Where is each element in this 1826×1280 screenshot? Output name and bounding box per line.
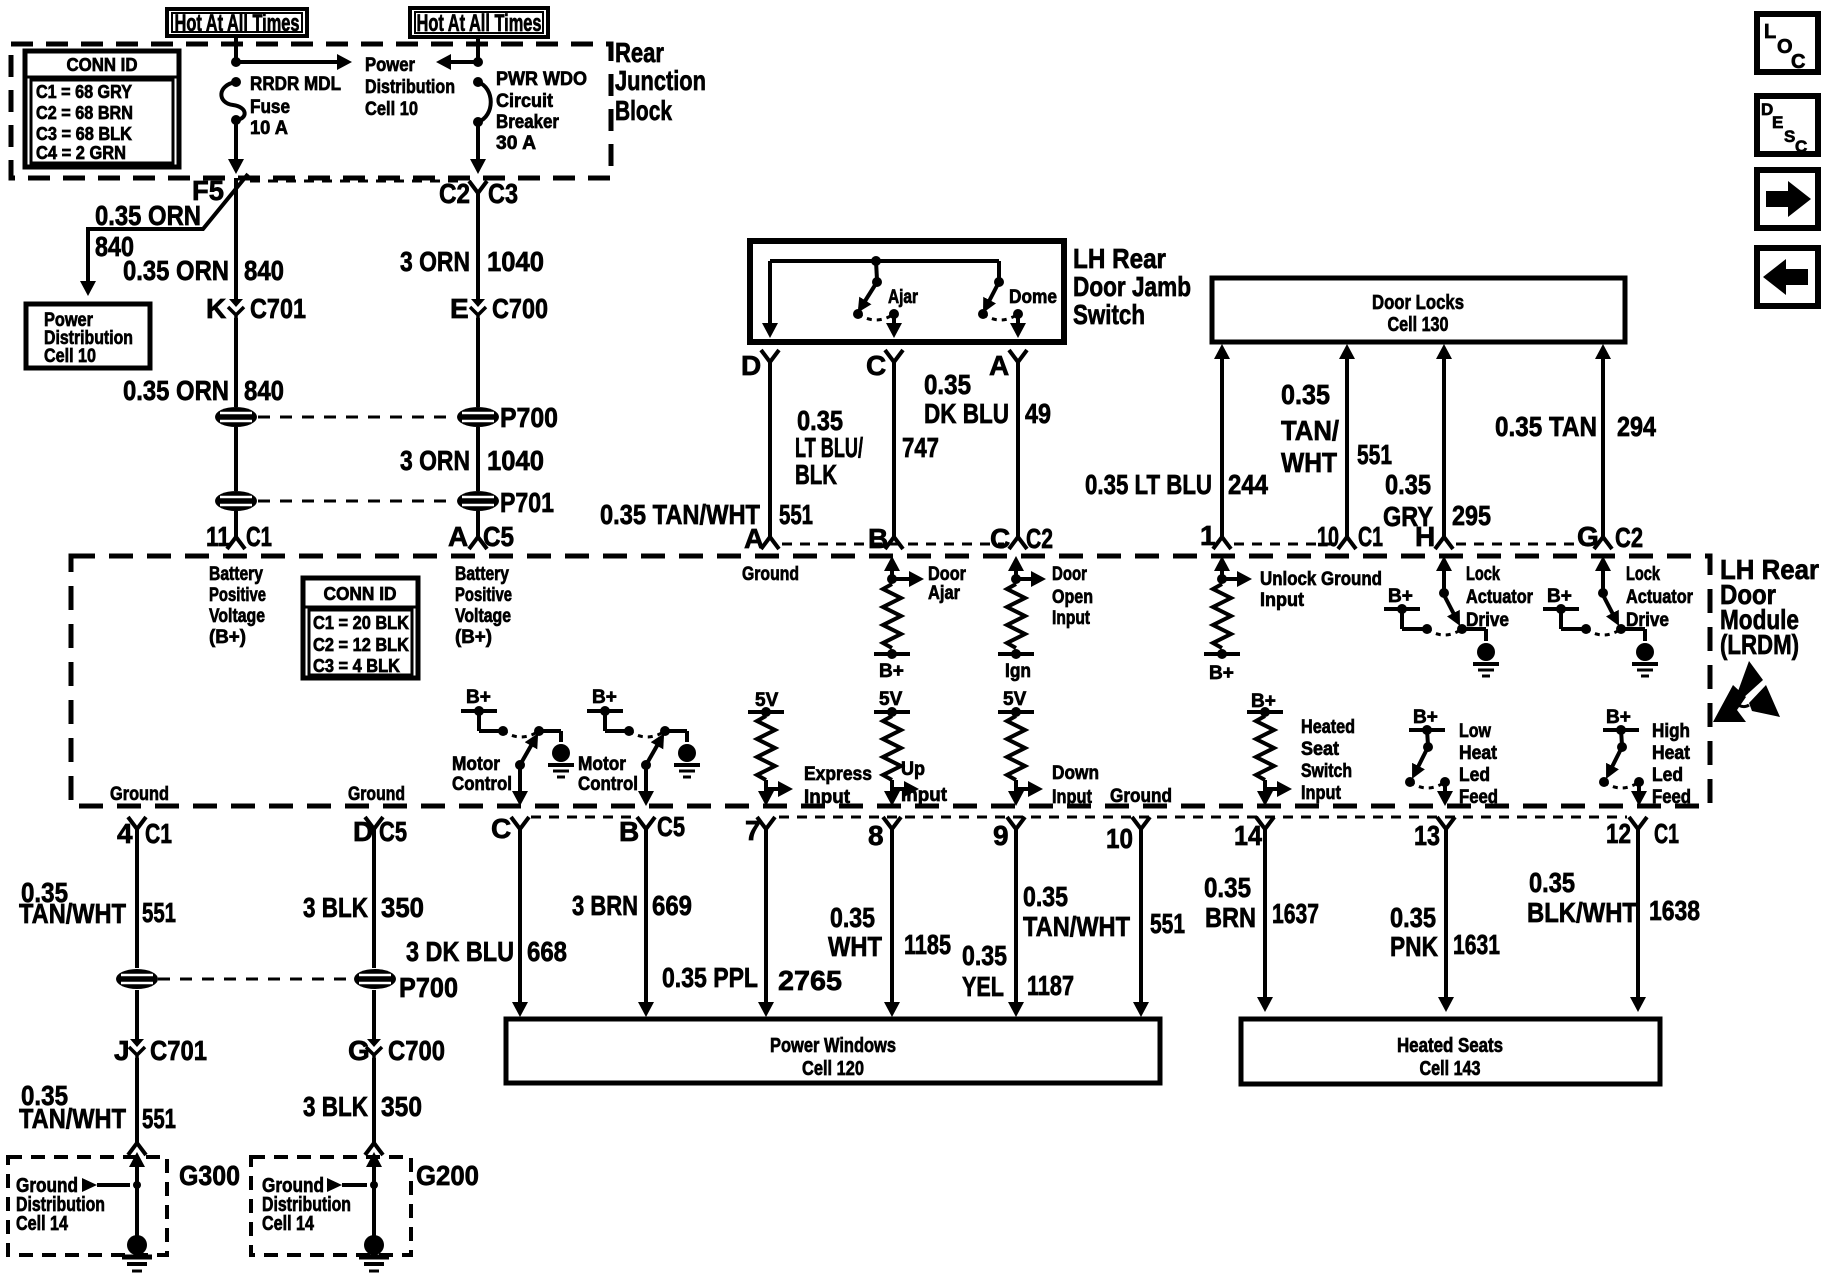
svg-text:Feed: Feed — [1459, 787, 1498, 808]
fuse RRDR MDL 10 A — [231, 77, 241, 87]
svg-text:0.35: 0.35 — [1204, 872, 1251, 903]
circuit breaker PWR WDO 30 A — [473, 77, 483, 87]
svg-text:C2 = 68 BRN: C2 = 68 BRN — [36, 103, 133, 123]
svg-text:Input: Input — [1301, 783, 1342, 804]
connector K C701 — [228, 299, 244, 320]
svg-text:Door Locks: Door Locks — [1372, 292, 1464, 314]
fork at G200 — [365, 1134, 383, 1155]
Door Locks Cell 130 box — [1212, 278, 1625, 342]
svg-text:P700: P700 — [399, 972, 458, 1003]
svg-text:WHT: WHT — [1281, 447, 1337, 478]
CONN ID table (module connectors) — [303, 578, 418, 678]
pin G C2 fork at module — [1594, 528, 1612, 549]
svg-text:C: C — [866, 350, 886, 381]
junction node ajar feed — [871, 256, 881, 266]
connector G C700 — [366, 1039, 382, 1060]
junction node on breaker feed — [473, 57, 483, 67]
svg-text:C3 = 4 BLK: C3 = 4 BLK — [313, 656, 400, 676]
svg-text:Fuse: Fuse — [250, 97, 290, 118]
svg-text:0.35: 0.35 — [830, 902, 875, 933]
pin C fork — [511, 817, 529, 839]
wire pin 10 to Power Windows — [1139, 839, 1143, 1004]
wire pin 13 to Heated Seats — [1444, 839, 1448, 999]
svg-text:P700: P700 — [500, 402, 558, 433]
Heated Seats Cell 143 box — [1241, 1019, 1660, 1084]
ajar switch — [876, 261, 877, 280]
jamb pin D fork — [761, 350, 779, 372]
pin A C5 fork at module — [469, 528, 487, 549]
svg-text:8: 8 — [868, 820, 884, 851]
arrow to Power Distribution Cell 10 — [236, 60, 340, 64]
pin D C5 fork — [365, 817, 383, 839]
wire from Hot At All Times to circuit breaker — [476, 37, 480, 62]
unlock ground input resistor to B+ — [1214, 556, 1230, 571]
splice P700 ground side left — [116, 969, 158, 989]
dome switch — [997, 261, 1001, 280]
wire jamb D to module pin A — [768, 372, 772, 528]
svg-text:Battery: Battery — [455, 564, 509, 585]
svg-text:0.35 ORN: 0.35 ORN — [95, 200, 201, 231]
svg-text:B+: B+ — [879, 661, 904, 682]
svg-text:B: B — [619, 816, 639, 847]
svg-text:350: 350 — [381, 1091, 422, 1122]
svg-text:E: E — [450, 293, 469, 324]
svg-text:49: 49 — [1025, 398, 1051, 429]
wire module pin G to Door Locks — [1601, 358, 1605, 528]
svg-text:Ajar: Ajar — [888, 287, 918, 308]
splice P700 on ground wire D (right) — [372, 990, 376, 1039]
svg-text:B+: B+ — [1388, 586, 1413, 607]
back navigation button — [1757, 248, 1818, 306]
wire pin 7 to Power Windows — [764, 839, 768, 1004]
svg-text:BLK/WHT: BLK/WHT — [1527, 897, 1637, 928]
dashed splice link P700 ground — [158, 978, 354, 981]
svg-text:E: E — [1772, 113, 1783, 132]
wire P700 to P701 (right) — [476, 427, 480, 491]
svg-text:CONN ID: CONN ID — [67, 55, 138, 75]
LH Rear Door Module dashed enclosure — [71, 556, 1710, 806]
svg-text:A: A — [989, 350, 1009, 381]
svg-text:244: 244 — [1228, 469, 1268, 500]
jamb pin A fork — [1009, 350, 1027, 372]
svg-text:Breaker: Breaker — [496, 112, 560, 133]
dashed splice link P700 — [258, 416, 456, 419]
ESD sensitivity symbol — [1737, 661, 1763, 699]
junction node on fuse feed — [231, 57, 241, 67]
svg-text:0.35 TAN/WHT: 0.35 TAN/WHT — [600, 499, 760, 530]
svg-text:YEL: YEL — [962, 971, 1004, 1002]
svg-text:10: 10 — [1106, 823, 1133, 854]
svg-text:3 BLK: 3 BLK — [303, 892, 368, 923]
svg-text:A: A — [744, 523, 764, 554]
wire P701 to module pin A — [476, 511, 480, 528]
svg-text:C4 = 2 GRN: C4 = 2 GRN — [36, 143, 126, 163]
svg-text:C3: C3 — [488, 178, 518, 209]
svg-text:C2 = 12 BLK: C2 = 12 BLK — [313, 635, 409, 655]
svg-text:Door: Door — [1052, 564, 1087, 585]
svg-text:PNK: PNK — [1390, 931, 1438, 962]
pin C2 C3 fork — [469, 181, 487, 203]
svg-text:Door: Door — [928, 564, 967, 585]
pin 11 C1 fork at module — [227, 528, 245, 549]
svg-text:Drive: Drive — [1466, 610, 1509, 631]
ground symbol G200 — [359, 1235, 389, 1271]
svg-text:Cell 14: Cell 14 — [16, 1213, 69, 1235]
wire P701 to module pin 11 — [234, 511, 238, 528]
svg-text:350: 350 — [381, 892, 424, 923]
svg-text:B+: B+ — [592, 687, 617, 708]
svg-text:Voltage: Voltage — [209, 606, 265, 627]
wire pin 8 to Power Windows — [890, 839, 894, 1004]
svg-text:B+: B+ — [1606, 707, 1631, 728]
wire C3 to connector C700 — [476, 203, 480, 299]
svg-text:1187: 1187 — [1027, 970, 1074, 1001]
svg-text:Heated: Heated — [1301, 717, 1355, 738]
svg-text:B+: B+ — [1547, 586, 1572, 607]
svg-text:Cell 130: Cell 130 — [1388, 314, 1449, 336]
svg-text:Heated Seats: Heated Seats — [1397, 1035, 1503, 1057]
pin B C5 fork — [637, 817, 655, 839]
svg-text:B: B — [868, 523, 888, 554]
svg-text:G: G — [348, 1035, 370, 1066]
svg-text:Input: Input — [1052, 608, 1091, 629]
svg-text:Up: Up — [901, 759, 925, 780]
wire from Hot At All Times to fuse F5 — [234, 36, 238, 62]
svg-text:1: 1 — [1200, 520, 1216, 551]
connector line F5 to C2 (dashed) — [250, 180, 464, 183]
svg-text:(B+): (B+) — [209, 627, 246, 648]
door open input resistor to Ign — [1008, 556, 1024, 571]
wire pin D to splice P700 — [372, 839, 376, 968]
svg-text:S: S — [1784, 127, 1795, 146]
wire F5 down to connector C701 — [234, 178, 238, 299]
svg-text:3 DK BLU: 3 DK BLU — [406, 936, 514, 967]
svg-text:Battery: Battery — [209, 564, 263, 585]
svg-text:G200: G200 — [416, 1160, 479, 1191]
svg-text:Voltage: Voltage — [455, 606, 511, 627]
connector dashed line pins 7-12 — [779, 816, 1627, 819]
jamb pin C fork — [885, 350, 903, 372]
Power Windows Cell 120 box — [506, 1019, 1160, 1083]
svg-text:Input: Input — [1260, 590, 1305, 611]
svg-text:P701: P701 — [500, 487, 554, 518]
svg-text:1638: 1638 — [1649, 895, 1700, 926]
svg-text:C701: C701 — [250, 293, 306, 324]
svg-text:Lock: Lock — [1466, 564, 1500, 585]
svg-text:C1 = 68 GRY: C1 = 68 GRY — [36, 82, 132, 102]
svg-text:C2: C2 — [439, 178, 470, 209]
svg-text:1040: 1040 — [487, 246, 544, 277]
wire pin 12 to Heated Seats — [1636, 839, 1640, 999]
svg-text:C: C — [491, 813, 511, 844]
svg-text:C5: C5 — [657, 811, 685, 842]
svg-text:Hot At All Times: Hot At All Times — [175, 10, 300, 37]
svg-text:14: 14 — [1234, 820, 1262, 851]
svg-text:30 A: 30 A — [496, 133, 536, 154]
pin C C2 fork at module — [1009, 528, 1027, 549]
LH Rear Door Jamb Switch box — [750, 241, 1064, 342]
ground symbol G300 — [122, 1235, 152, 1271]
svg-text:Input: Input — [901, 785, 948, 806]
svg-text:0.35: 0.35 — [962, 940, 1007, 971]
svg-text:Motor: Motor — [578, 754, 627, 775]
pin 8 fork — [883, 817, 901, 839]
svg-text:0.35: 0.35 — [1023, 881, 1068, 912]
svg-text:551: 551 — [779, 499, 813, 530]
svg-text:0.35 ORN: 0.35 ORN — [123, 375, 229, 406]
svg-text:Junction: Junction — [615, 65, 706, 96]
svg-text:551: 551 — [1357, 439, 1392, 470]
svg-text:Power: Power — [365, 55, 416, 76]
svg-text:0.35: 0.35 — [1281, 379, 1330, 410]
svg-text:295: 295 — [1452, 500, 1491, 531]
pin 1 fork at module — [1213, 528, 1231, 549]
DESC reference button — [1757, 96, 1818, 154]
svg-text:5V: 5V — [1003, 689, 1027, 710]
ground G300 dashed box — [8, 1157, 167, 1255]
svg-text:0.35: 0.35 — [1385, 469, 1431, 500]
pin 14 fork — [1256, 817, 1274, 839]
svg-text:668: 668 — [527, 936, 567, 967]
svg-text:Distribution: Distribution — [365, 77, 455, 98]
arrow to Power Distribution Cell 10 (left pointing) — [448, 60, 478, 64]
wire pin 4 to splice P700 — [135, 839, 139, 968]
svg-text:C2: C2 — [1026, 523, 1053, 554]
svg-text:(LRDM): (LRDM) — [1720, 629, 1799, 660]
wire pin C to Power Windows — [518, 839, 522, 1004]
svg-text:0.35 ORN: 0.35 ORN — [123, 255, 229, 286]
svg-text:Led: Led — [1459, 765, 1490, 786]
svg-text:Input: Input — [804, 787, 851, 808]
svg-text:Switch: Switch — [1073, 299, 1145, 330]
svg-text:Control: Control — [578, 774, 638, 795]
svg-text:RRDR MDL: RRDR MDL — [250, 74, 341, 95]
svg-text:A: A — [448, 521, 468, 552]
svg-text:669: 669 — [652, 890, 692, 921]
svg-text:Heat: Heat — [1652, 743, 1691, 764]
svg-text:BRN: BRN — [1205, 902, 1256, 933]
svg-text:3 BRN: 3 BRN — [572, 890, 638, 921]
svg-text:G: G — [1577, 521, 1599, 552]
wire jamb C to module pin B — [892, 372, 896, 528]
Hot At All Times label box 2 — [410, 8, 548, 37]
forward navigation button — [1757, 170, 1818, 228]
svg-text:Control: Control — [452, 774, 512, 795]
pin 13 fork — [1437, 817, 1455, 839]
svg-text:Motor: Motor — [452, 754, 501, 775]
svg-text:7: 7 — [745, 815, 761, 846]
svg-text:Open: Open — [1052, 587, 1093, 608]
svg-text:L: L — [1764, 21, 1776, 43]
lock actuator drive switch pin H — [1436, 556, 1452, 571]
svg-text:0.35 TAN: 0.35 TAN — [1495, 411, 1597, 442]
svg-text:C1: C1 — [145, 818, 172, 849]
wire module pin H to Door Locks — [1442, 358, 1446, 528]
svg-text:Led: Led — [1652, 765, 1683, 786]
pin 7 fork — [757, 817, 775, 839]
svg-text:WHT: WHT — [828, 931, 882, 962]
svg-text:13: 13 — [1414, 820, 1440, 851]
svg-text:1631: 1631 — [1453, 929, 1500, 960]
svg-text:Unlock Ground: Unlock Ground — [1260, 569, 1382, 590]
svg-text:B+: B+ — [1413, 707, 1438, 728]
svg-text:747: 747 — [902, 432, 939, 463]
svg-text:3 ORN: 3 ORN — [400, 246, 470, 277]
svg-text:4: 4 — [117, 818, 133, 849]
wire pin 9 to Power Windows — [1014, 839, 1018, 1004]
svg-text:C1: C1 — [1358, 521, 1383, 552]
svg-text:Down: Down — [1052, 763, 1099, 784]
svg-text:PWR WDO: PWR WDO — [496, 69, 587, 90]
LOC reference button — [1757, 14, 1818, 72]
pin 10 fork — [1132, 817, 1150, 839]
svg-text:3 BLK: 3 BLK — [303, 1091, 368, 1122]
svg-text:Cell 10: Cell 10 — [44, 346, 96, 367]
svg-text:Ground: Ground — [110, 784, 169, 805]
svg-text:B+: B+ — [466, 687, 491, 708]
svg-text:3 ORN: 3 ORN — [400, 445, 470, 476]
svg-text:Low: Low — [1459, 721, 1491, 742]
svg-text:D: D — [353, 816, 373, 847]
svg-text:C1: C1 — [246, 521, 272, 552]
splice P700 left — [215, 407, 257, 427]
splice P701 left — [215, 491, 257, 511]
svg-text:D: D — [741, 350, 761, 381]
Rear Junction Block dashed enclosure — [11, 44, 611, 178]
svg-text:Positive: Positive — [455, 585, 512, 606]
svg-text:12: 12 — [1606, 818, 1631, 849]
wire P700 to P701 (left) — [234, 427, 238, 491]
connector dashed line pins C-B — [531, 816, 635, 819]
G300 internal ground distribution — [129, 1152, 145, 1167]
splice P700 right — [457, 407, 499, 427]
G200 internal ground distribution — [366, 1152, 382, 1167]
svg-text:B+: B+ — [1209, 663, 1234, 684]
svg-text:Ground: Ground — [1110, 786, 1172, 807]
wire module pin 10 to Door Locks — [1345, 358, 1349, 528]
svg-text:CONN ID: CONN ID — [324, 584, 397, 604]
svg-text:C700: C700 — [492, 293, 548, 324]
svg-text:Circuit: Circuit — [496, 91, 554, 112]
svg-text:K: K — [206, 293, 226, 324]
pin 10 C1 fork at module — [1338, 528, 1356, 549]
svg-text:Door Jamb: Door Jamb — [1073, 271, 1191, 302]
svg-text:1040: 1040 — [487, 445, 544, 476]
svg-text:C3 = 68 BLK: C3 = 68 BLK — [36, 124, 132, 144]
svg-text:Input: Input — [1052, 787, 1093, 808]
svg-text:551: 551 — [142, 1103, 176, 1134]
CONN ID table (junction block connectors) — [25, 51, 179, 167]
splice P701 right — [457, 491, 499, 511]
svg-text:0.35: 0.35 — [1529, 867, 1575, 898]
svg-text:Ajar: Ajar — [928, 583, 961, 604]
svg-text:(B+): (B+) — [455, 627, 492, 648]
connector dashed line pins A-C2 — [782, 543, 1004, 546]
svg-text:Actuator: Actuator — [1626, 587, 1694, 608]
wire breaker output with arrow at block edge — [476, 122, 480, 160]
pin 12 C1 fork — [1629, 817, 1647, 839]
svg-text:10 A: 10 A — [250, 118, 288, 139]
wire C700 to splice P700 — [476, 318, 480, 407]
wire module pin 1 to Door Locks — [1220, 358, 1224, 528]
svg-text:0.35 LT BLU: 0.35 LT BLU — [1085, 469, 1212, 500]
svg-text:Feed: Feed — [1652, 787, 1691, 808]
svg-text:551: 551 — [142, 897, 176, 928]
svg-text:5V: 5V — [879, 689, 903, 710]
svg-text:LH Rear: LH Rear — [1073, 243, 1166, 274]
svg-text:Heat: Heat — [1459, 743, 1498, 764]
svg-text:Lock: Lock — [1626, 564, 1660, 585]
svg-text:840: 840 — [244, 375, 284, 406]
lock actuator drive switch pin G — [1595, 556, 1611, 571]
svg-text:551: 551 — [1150, 908, 1185, 939]
connector dashed line pins H-C2 — [1456, 543, 1590, 546]
svg-text:BLK: BLK — [795, 459, 837, 490]
svg-text:DK BLU: DK BLU — [924, 398, 1009, 429]
wire C701 to G300 — [135, 1058, 139, 1134]
pin B fork at module — [885, 528, 903, 549]
svg-text:C: C — [1795, 137, 1807, 156]
door ajar input resistor to B+ — [884, 556, 900, 571]
svg-text:C701: C701 — [150, 1035, 207, 1066]
svg-text:Cell 14: Cell 14 — [262, 1213, 315, 1235]
svg-text:Hot At All Times: Hot At All Times — [417, 10, 542, 37]
splice P700 ground side right — [354, 969, 396, 989]
svg-text:Drive: Drive — [1626, 610, 1669, 631]
jamb switch common wire — [770, 259, 999, 263]
wire jamb A to module pin C — [1016, 372, 1020, 528]
svg-text:C700: C700 — [388, 1035, 445, 1066]
svg-text:C2: C2 — [1615, 522, 1643, 553]
ground G200 dashed box — [251, 1157, 411, 1255]
svg-text:C5: C5 — [483, 521, 514, 552]
svg-text:Ground: Ground — [348, 784, 405, 805]
Power Distribution Cell 10 box — [26, 304, 150, 368]
svg-text:10: 10 — [1317, 521, 1339, 552]
wire pin 14 to Heated Seats — [1263, 839, 1267, 999]
svg-text:Ground: Ground — [742, 564, 799, 585]
svg-text:TAN/WHT: TAN/WHT — [19, 898, 126, 929]
svg-text:High: High — [1652, 721, 1690, 742]
pin H fork at module — [1435, 528, 1453, 549]
wire splice to connector C701 — [135, 990, 139, 1039]
svg-text:C: C — [990, 523, 1010, 554]
svg-text:2765: 2765 — [778, 965, 842, 996]
svg-text:C1 = 20 BLK: C1 = 20 BLK — [313, 613, 409, 633]
Hot At All Times label box 1 — [167, 9, 307, 36]
connector J C701 — [129, 1039, 145, 1060]
connector E C700 — [470, 299, 486, 320]
pin 9 fork — [1007, 817, 1025, 839]
wire pin B to Power Windows — [644, 839, 648, 1004]
fork at G300 — [128, 1134, 146, 1155]
svg-text:9: 9 — [993, 820, 1009, 851]
svg-text:294: 294 — [1617, 411, 1656, 442]
svg-text:Power Windows: Power Windows — [770, 1035, 896, 1057]
svg-text:0.35: 0.35 — [924, 369, 971, 400]
svg-text:Dome: Dome — [1009, 287, 1057, 308]
dashed splice link P701 — [258, 500, 456, 503]
svg-text:C: C — [1791, 51, 1805, 73]
svg-text:TAN/: TAN/ — [1281, 415, 1339, 446]
svg-text:Positive: Positive — [209, 585, 266, 606]
svg-text:Rear: Rear — [615, 37, 664, 68]
pin A fork at module — [761, 528, 779, 549]
svg-text:Actuator: Actuator — [1466, 587, 1534, 608]
svg-text:H: H — [1415, 521, 1435, 552]
svg-text:C1: C1 — [1654, 818, 1679, 849]
pin 4 C1 fork — [128, 817, 146, 839]
